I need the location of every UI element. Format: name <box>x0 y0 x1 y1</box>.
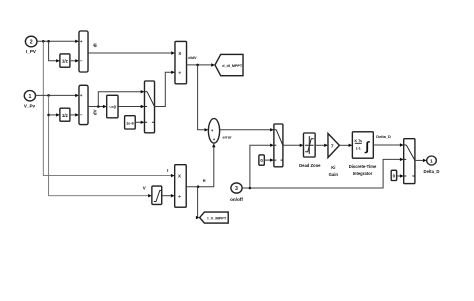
svg-text:1: 1 <box>28 94 31 100</box>
wire port1 to sum2 <box>36 94 80 97</box>
switch1 (dV zero protect) <box>145 81 155 133</box>
svg-text:Delta_D: Delta_D <box>423 169 439 174</box>
svg-text:on/off: on/off <box>230 197 243 202</box>
unit delay 1 (1/z) <box>60 54 70 67</box>
wire long I feed down to product2 <box>43 41 174 177</box>
svg-text:1/z: 1/z <box>62 113 69 118</box>
svg-text:Ki: Ki <box>331 165 335 170</box>
wire product2 output R up to error sum <box>186 143 215 186</box>
input port 1 (V_PV) <box>24 91 36 109</box>
svg-text:3: 3 <box>235 186 238 192</box>
wire sum2 output dV to compare block <box>88 105 107 115</box>
wire R down to goto2 <box>196 187 200 220</box>
unit delay 2 (1/z) <box>60 108 70 121</box>
svg-text:1/z: 1/z <box>62 59 69 64</box>
junction on R wire <box>197 185 200 188</box>
constant 0 (switch3) <box>391 170 396 180</box>
svg-text:error: error <box>223 134 233 139</box>
goto tag d_dI_MPPT <box>215 54 243 75</box>
gain Ki (7) <box>328 134 339 178</box>
svg-text:Gain: Gain <box>329 172 339 177</box>
output port 1 (Delta_D) <box>423 156 439 174</box>
junction on dIdV wire <box>196 64 199 67</box>
svg-text:R: R <box>203 178 206 183</box>
discrete-time integrator block <box>349 132 377 176</box>
svg-text:d_dI_MPPT: d_dI_MPPT <box>222 64 243 68</box>
svg-text:V_Pv: V_Pv <box>24 104 36 109</box>
sum block Add2 (dV) <box>79 85 88 124</box>
wire saturation to product2 divide input <box>162 194 175 197</box>
wire unit delay 1 to sum1 minus <box>70 59 79 62</box>
wire product1 output dIdV to goto1 <box>187 56 216 67</box>
svg-text:I_PV: I_PV <box>26 49 37 54</box>
constant 0 (switch2) <box>259 155 264 165</box>
junction on I_PV wire (delay branch) <box>47 40 50 43</box>
wire constant0 to switch3 input3 <box>397 174 404 177</box>
svg-text:−: − <box>80 58 83 63</box>
svg-text:dI: dI <box>92 43 97 47</box>
wire error to switch2 input1 <box>220 128 274 139</box>
wire sum1 output dI to product1 <box>88 43 175 54</box>
svg-text:I: I <box>167 168 168 173</box>
wire switch1 output up to product1 divide input <box>155 71 176 107</box>
svg-text:+: + <box>80 39 83 44</box>
wire on/off branch up to switch2 control <box>250 144 274 189</box>
svg-text:7: 7 <box>331 143 334 149</box>
wire dIdV down to error sum <box>198 65 209 132</box>
wire compare to switch1 input2 <box>118 105 145 108</box>
wire long V feed down to saturation <box>49 95 152 197</box>
svg-text:I_V_MPPT: I_V_MPPT <box>207 215 226 220</box>
junction on V vertical (delay branch) <box>47 114 50 117</box>
svg-text:÷: ÷ <box>178 71 181 77</box>
svg-text:X: X <box>178 174 181 179</box>
junction on I_PV wire (node I long) <box>42 40 45 43</box>
svg-text:Integrator: Integrator <box>353 171 373 176</box>
wire integrator to switch3 input1 <box>373 134 403 147</box>
wire switch2 to dead zone <box>283 144 304 147</box>
junction on dV wire <box>97 105 100 108</box>
compare to zero block (~=0) <box>107 95 118 118</box>
wire dV branch up to switch1 input1 <box>98 90 144 107</box>
wire gain to integrator <box>339 144 352 147</box>
wire delay branch to unit delay 1 <box>49 41 60 62</box>
svg-text:+: + <box>211 128 214 133</box>
svg-text:Dead Zone: Dead Zone <box>299 163 321 168</box>
wire delay branch to unit delay 2 <box>49 113 60 116</box>
svg-text:1: 1 <box>430 159 433 165</box>
goto tag I_V_MPPT <box>200 212 229 223</box>
svg-text:−: − <box>80 113 83 118</box>
wire port2 to sum1 <box>37 40 79 43</box>
product divide block 1 (dI/dV) <box>175 41 187 83</box>
svg-text:dV: dV <box>92 109 97 115</box>
svg-text:÷: ÷ <box>178 194 181 200</box>
svg-text:+: + <box>213 137 216 142</box>
svg-text:2: 2 <box>30 40 33 46</box>
input port 3 (on/off) <box>230 183 243 202</box>
svg-text:X: X <box>178 51 181 56</box>
input port 2 (I_PV) <box>25 36 37 54</box>
dead zone block <box>299 133 321 168</box>
svg-text:~=0: ~=0 <box>109 104 117 109</box>
switch3 (output gate) <box>404 139 415 184</box>
wire on/off to switch3 control <box>242 158 404 188</box>
junction on on/off wire <box>249 187 252 190</box>
wire unit delay 2 to sum2 minus <box>70 113 79 116</box>
wire constant0 to switch2 input3 <box>264 158 274 161</box>
junction on V_PV wire <box>47 94 50 97</box>
svg-text:z-1: z-1 <box>356 147 361 151</box>
wire constant 1e-6 to switch1 input3 <box>135 121 144 124</box>
product divide block 2 (I/V) <box>175 165 187 208</box>
svg-text:K Ts: K Ts <box>355 139 363 143</box>
svg-text:dIdV: dIdV <box>188 56 197 60</box>
sum block Add1 (dI) <box>79 31 88 72</box>
constant 1e-6 <box>125 116 136 129</box>
error sum ellipse <box>208 119 219 144</box>
wire switch3 to output port <box>415 159 427 162</box>
svg-text:V: V <box>143 185 146 190</box>
svg-text:Discrete-Time: Discrete-Time <box>349 164 377 169</box>
svg-text:Delta_D: Delta_D <box>376 134 391 139</box>
wire dead zone to gain <box>315 144 328 147</box>
switch2 (error gate) <box>274 124 283 167</box>
saturation block <box>152 186 162 204</box>
svg-text:1e-6: 1e-6 <box>126 121 134 125</box>
svg-text:+: + <box>80 93 83 98</box>
